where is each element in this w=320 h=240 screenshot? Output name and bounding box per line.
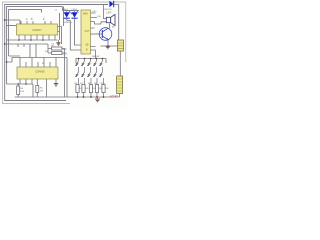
transistor Q1 xyxy=(99,27,115,40)
wire battery middle xyxy=(119,51,121,76)
resistor R10 xyxy=(101,83,110,97)
border frame inner xyxy=(5,5,108,101)
wire under U1 xyxy=(7,39,58,41)
diode row 2 xyxy=(75,72,103,77)
wire above U3 xyxy=(7,56,67,62)
svg-text:GB: GB xyxy=(85,44,89,47)
matrix left vertical wire xyxy=(66,58,68,98)
battery B1a xyxy=(117,40,123,51)
diode D3 1N4007 xyxy=(104,1,114,14)
matrix top rail xyxy=(76,59,106,64)
junction dots under U1 xyxy=(18,39,20,41)
node A xyxy=(4,19,6,21)
ground G2 xyxy=(54,84,58,86)
border frame outer xyxy=(3,2,126,104)
U1 bottom pin stubs xyxy=(19,35,55,40)
diode row 1 xyxy=(75,61,103,66)
LED D1 xyxy=(64,11,72,21)
LED D2 xyxy=(71,11,78,21)
resistor R2 xyxy=(45,49,68,98)
wire nested loop 3 xyxy=(9,10,42,56)
svg-text:1M: 1M xyxy=(40,90,43,92)
resistor R1 xyxy=(48,44,66,53)
resistor R6 xyxy=(75,83,84,97)
ground G3 xyxy=(106,45,110,49)
wire U2 out to base xyxy=(91,33,103,35)
svg-text:LS: LS xyxy=(107,13,110,15)
IC U1 CD4017 xyxy=(17,24,58,35)
svg-text:CD4060: CD4060 xyxy=(35,69,45,73)
matrix rail junction dots xyxy=(78,58,104,60)
resistor R4 xyxy=(17,83,27,97)
U2 right pin stubs xyxy=(91,13,102,59)
svg-text:4.5-9V: 4.5-9V xyxy=(110,94,118,98)
wire mid-left xyxy=(5,44,48,58)
resistor R8 xyxy=(88,83,97,97)
resistor R9 xyxy=(94,83,103,97)
diode matrix columns xyxy=(79,59,104,85)
bottom rail xyxy=(15,96,120,98)
svg-text:M66: M66 xyxy=(83,13,88,16)
U1 top pin stubs xyxy=(21,21,51,24)
wire top V+ rail right of diode to battery xyxy=(114,5,118,41)
svg-text:CD4017: CD4017 xyxy=(32,28,42,32)
svg-text:10K: 10K xyxy=(97,16,101,18)
wire LED rail xyxy=(63,7,82,50)
svg-text:OUT: OUT xyxy=(85,30,91,33)
svg-text:ON/OFF: ON/OFF xyxy=(104,9,113,11)
wires right of U1 xyxy=(58,7,64,44)
rail junction dots xyxy=(77,96,105,98)
wire emitter down xyxy=(101,40,118,46)
svg-text:10K: 10K xyxy=(20,91,24,93)
ground G1 xyxy=(56,40,60,45)
wire under U3 xyxy=(7,84,33,97)
resistor R5 xyxy=(36,79,44,97)
svg-text:22K: 22K xyxy=(63,53,68,56)
U3 top pin stubs xyxy=(20,58,56,68)
svg-text:1N4148: 1N4148 xyxy=(92,56,100,58)
wire nested loop 2 xyxy=(7,7,63,84)
wire collector to speaker xyxy=(109,24,111,29)
svg-text:OSC: OSC xyxy=(92,11,97,13)
svg-text:GREEN: GREEN xyxy=(64,22,72,24)
IC U2 melody xyxy=(81,10,91,54)
U3 bottom pin stubs xyxy=(20,79,56,97)
battery B1b xyxy=(113,75,123,97)
wire into U1 left pins xyxy=(5,20,20,26)
speaker LS1 xyxy=(101,5,115,26)
ground G4 xyxy=(95,97,100,102)
node C xyxy=(6,61,8,63)
node B xyxy=(4,43,6,45)
resistor R7 xyxy=(81,83,90,97)
IC U3 CD4060 xyxy=(17,67,58,79)
